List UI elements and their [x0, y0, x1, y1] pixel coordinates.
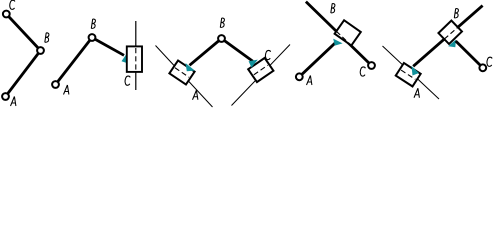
pin wedge C (teal) — [122, 54, 127, 64]
label C — [10, 0, 15, 9]
slider block B — [335, 20, 361, 45]
label B — [220, 18, 224, 28]
pin wedge B (teal) — [448, 40, 456, 48]
guide line through A — [383, 46, 440, 99]
label C — [125, 76, 130, 85]
link B-C — [456, 41, 483, 68]
label B — [45, 33, 49, 43]
pin wedge A (teal) — [412, 66, 420, 76]
left guide line — [156, 46, 213, 108]
slider centerline (dashed) — [135, 48, 137, 71]
guide line upper segment — [135, 21, 137, 46]
slider block A — [169, 60, 194, 84]
crank A-B — [299, 42, 336, 77]
link CB — [6, 14, 40, 51]
link B to slider A — [190, 39, 222, 66]
link BA — [6, 51, 41, 97]
slider block B — [438, 21, 462, 44]
label A — [307, 76, 312, 86]
label C — [266, 50, 271, 59]
joint C — [368, 62, 375, 69]
label A — [414, 88, 419, 98]
slider block A — [396, 63, 421, 86]
joint B — [37, 47, 44, 54]
joint C — [479, 64, 486, 71]
joint B — [218, 35, 225, 42]
joint A — [2, 93, 9, 100]
pin wedge A (teal) — [186, 63, 195, 71]
label C — [360, 67, 365, 76]
link AB — [56, 38, 93, 85]
guide line lower segment — [135, 72, 137, 90]
slider block C — [127, 46, 142, 72]
joint C — [3, 11, 10, 18]
label A — [64, 85, 69, 95]
link B to slider pin — [92, 38, 124, 56]
label A — [193, 90, 198, 100]
joint A — [296, 73, 303, 80]
right guide line — [232, 45, 291, 106]
slider block C — [248, 58, 273, 82]
label B — [454, 9, 458, 19]
label C — [487, 57, 492, 66]
pin wedge B (teal) — [333, 39, 342, 46]
joint A — [52, 81, 59, 88]
link B to slider C — [222, 39, 253, 62]
guide rod through B to C — [306, 2, 372, 66]
label A — [11, 97, 16, 107]
pin wedge C (teal) — [249, 60, 258, 68]
label B — [91, 19, 95, 29]
label B — [331, 4, 335, 14]
rod from pin A through block B — [413, 6, 482, 67]
joint B — [89, 34, 96, 41]
